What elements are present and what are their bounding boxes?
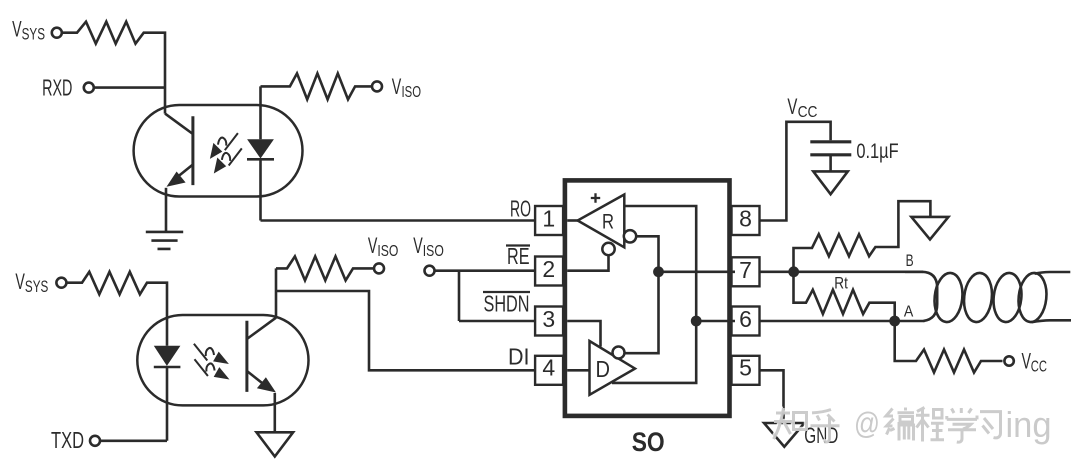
svg-text:5: 5 — [739, 355, 752, 381]
svg-text:ing: ing — [1006, 404, 1052, 445]
svg-text:V: V — [1022, 349, 1032, 374]
svg-text:B: B — [906, 252, 914, 270]
svg-text:CC: CC — [798, 104, 818, 121]
svg-text:Rt: Rt — [834, 274, 848, 292]
svg-text:SYS: SYS — [25, 278, 48, 296]
svg-text:V: V — [368, 233, 378, 258]
svg-text:1: 1 — [542, 205, 555, 231]
svg-text:3: 3 — [542, 306, 555, 332]
svg-text:CC: CC — [1031, 359, 1047, 376]
svg-text:ISO: ISO — [423, 243, 444, 260]
svg-text:DI: DI — [508, 344, 530, 370]
svg-text:V: V — [15, 269, 25, 294]
svg-text:6: 6 — [739, 306, 752, 332]
svg-text:7: 7 — [739, 257, 752, 283]
svg-text:0.1µF: 0.1µF — [856, 140, 898, 163]
svg-text:V: V — [787, 94, 797, 119]
svg-text:R: R — [602, 210, 614, 234]
svg-text:SO: SO — [632, 427, 665, 457]
svg-text:D: D — [596, 356, 611, 382]
svg-text:2: 2 — [542, 256, 555, 282]
svg-text:TXD: TXD — [51, 427, 84, 453]
svg-text:V: V — [392, 74, 402, 99]
svg-text:SYS: SYS — [22, 26, 45, 44]
svg-text:RO: RO — [510, 196, 531, 222]
svg-text:V: V — [413, 233, 423, 258]
svg-text:RE: RE — [507, 243, 530, 269]
svg-text:@: @ — [854, 406, 880, 441]
svg-text:ISO: ISO — [402, 84, 422, 101]
svg-text:V: V — [12, 17, 22, 42]
svg-text:RXD: RXD — [42, 75, 72, 101]
svg-text:4: 4 — [542, 355, 555, 381]
svg-text:SHDN: SHDN — [484, 291, 530, 317]
svg-text:A: A — [904, 303, 914, 320]
svg-text:8: 8 — [739, 205, 752, 231]
svg-text:ISO: ISO — [377, 243, 398, 260]
